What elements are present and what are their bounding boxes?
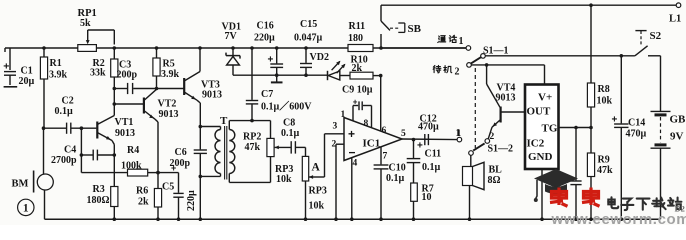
capacitor C15 (294, 19, 323, 77)
svg-text:5: 5 (401, 129, 406, 139)
svg-text:BL: BL (489, 165, 503, 176)
svg-text:470µ: 470µ (418, 122, 439, 133)
svg-text:TG: TG (542, 123, 558, 135)
label: IC1 pin numbers (332, 110, 407, 169)
svg-text:VT1: VT1 (115, 117, 134, 128)
svg-text:C14: C14 (628, 118, 645, 129)
wire: IC2 GND to rail (540, 169, 544, 221)
svg-text:200p: 200p (117, 70, 138, 81)
switch S1-2 (457, 129, 514, 155)
svg-text:C8: C8 (283, 118, 295, 129)
svg-text:V+: V+ (538, 92, 552, 104)
svg-text:C4: C4 (64, 145, 76, 156)
capacitor C1 (3, 48, 34, 87)
svg-text:3: 3 (333, 122, 338, 132)
node: C2/C4 branch (80, 126, 84, 172)
svg-text:R5: R5 (163, 59, 175, 70)
svg-text:220µ: 220µ (186, 190, 197, 211)
svg-text:C15: C15 (300, 19, 317, 30)
svg-text:RP3: RP3 (309, 186, 327, 197)
resistor R4 (81, 145, 159, 176)
svg-text:8: 8 (364, 119, 369, 129)
svg-text:R8: R8 (598, 84, 610, 95)
wire: L1 line rail (top) (381, 3, 676, 7)
svg-text:R11: R11 (349, 21, 366, 32)
wire: rail SB to S1-1 (381, 47, 466, 49)
svg-text:9V: 9V (670, 131, 684, 143)
svg-text:+: + (3, 61, 9, 73)
capacitor C9 feedback loop (342, 85, 373, 128)
svg-text:180Ω: 180Ω (87, 195, 110, 206)
svg-text:C10: C10 (389, 163, 406, 174)
resistor R5 (153, 46, 180, 90)
svg-text:GND: GND (528, 151, 553, 163)
svg-text:C9 10µ: C9 10µ (342, 85, 373, 96)
op-amp IC1 (344, 118, 402, 161)
svg-text:T: T (220, 115, 228, 127)
svg-text:1: 1 (457, 129, 462, 139)
capacitor C12 (417, 114, 439, 152)
svg-text:www.eeworm.com: www.eeworm.com (551, 211, 686, 225)
svg-text:R1: R1 (50, 58, 62, 69)
svg-text:C6: C6 (175, 147, 187, 158)
capacitor C13 (under watermark) (570, 126, 581, 221)
resistor R10 (350, 55, 383, 80)
svg-text:9013: 9013 (202, 90, 222, 101)
microphone BM (12, 126, 54, 219)
svg-text:3.9k: 3.9k (161, 69, 180, 80)
wire: left edge drop at rail start (4, 48, 6, 52)
potentiometer RP2 (229, 132, 290, 183)
label: node A (312, 162, 321, 174)
potentiometer RP1 (78, 8, 117, 51)
capacitor C5 (156, 163, 197, 221)
capacitor C7 (246, 46, 312, 122)
svg-text:0.047µ: 0.047µ (294, 33, 323, 44)
svg-text:5k: 5k (80, 18, 91, 29)
svg-text:+: + (268, 55, 274, 66)
svg-text:BM: BM (12, 179, 29, 190)
LED VD2 with R10 (310, 52, 351, 80)
wire: S1-1 pole B to S2 (485, 55, 635, 57)
svg-text:C5: C5 (162, 182, 174, 193)
svg-text:R4: R4 (127, 145, 139, 156)
ground tick (271, 73, 283, 82)
node: VT3 emitter / transformer junction (199, 125, 203, 129)
svg-text:OUT: OUT (527, 106, 552, 118)
pushbutton SB (379, 5, 421, 50)
battery GB (651, 56, 686, 219)
svg-text:0.1µ／600V: 0.1µ／600V (261, 100, 312, 113)
capacitor C6 (170, 127, 207, 222)
svg-text:C16: C16 (257, 21, 274, 32)
svg-text:470µ: 470µ (626, 129, 647, 140)
transistor VT3 (184, 46, 222, 126)
transistor VT1 (97, 116, 135, 187)
svg-text:10k: 10k (597, 96, 613, 107)
resistor R8 (587, 5, 612, 153)
svg-text:10: 10 (422, 192, 432, 203)
capacitor C16 (254, 21, 283, 76)
resistor R3 (87, 184, 118, 221)
svg-text:100k: 100k (121, 161, 142, 172)
resistor R2 (90, 48, 118, 116)
svg-text:R3: R3 (93, 184, 105, 195)
svg-text:S1—2: S1—2 (488, 144, 514, 155)
resistor R9 (587, 153, 613, 221)
wire: RP3 wiper to op-amp pin3 (325, 134, 345, 177)
svg-text:S2: S2 (650, 30, 662, 42)
label: standby position (433, 65, 459, 77)
transistor VT2 (114, 89, 178, 188)
terminal L1 (669, 3, 681, 25)
svg-text:IC2: IC2 (527, 138, 545, 150)
svg-text:1: 1 (459, 36, 464, 47)
svg-text:0.1µ: 0.1µ (386, 173, 405, 184)
svg-text:2k: 2k (352, 63, 363, 74)
svg-text:10k: 10k (276, 174, 292, 185)
svg-text:+: + (612, 115, 618, 126)
svg-text:9013: 9013 (115, 128, 135, 139)
node: VT1 collector junctions (113, 87, 117, 106)
zener diode VD1 (222, 22, 241, 76)
mech linkage S1 (dashed) (474, 68, 476, 148)
wire: op-amp pin2 to ground (334, 144, 344, 221)
svg-text:180: 180 (348, 33, 363, 44)
watermark: www.eeworm.com (551, 204, 686, 229)
svg-text:1: 1 (23, 203, 29, 215)
wire: standby row to IC2 V+ (471, 63, 544, 84)
svg-text:4: 4 (353, 159, 358, 169)
svg-text:VT2: VT2 (158, 99, 177, 110)
watermark: red chong-chong characters (550, 188, 600, 207)
svg-text:9013: 9013 (496, 93, 516, 104)
svg-text:−: − (349, 146, 356, 160)
svg-text:A: A (312, 162, 321, 174)
wire: zener/ground row y75 (233, 74, 327, 76)
watermark: graduation cap logo (534, 169, 578, 202)
wire: bottom ground rail (45, 218, 661, 220)
svg-text:6: 6 (382, 126, 387, 136)
svg-text:2k: 2k (138, 197, 149, 208)
svg-text:33k: 33k (90, 68, 106, 79)
svg-text:20µ: 20µ (19, 76, 35, 87)
switch S1-1 (466, 46, 485, 68)
capacitor C11 / resistor R7 to ground (407, 140, 441, 221)
capacitor C4 (51, 145, 116, 167)
svg-text:GB: GB (670, 114, 686, 126)
svg-text:3.9k: 3.9k (49, 70, 68, 81)
svg-text:0.1µ: 0.1µ (281, 128, 300, 139)
svg-text:10k: 10k (309, 201, 325, 212)
speaker BL (463, 155, 503, 221)
svg-text:7V: 7V (225, 31, 238, 42)
svg-text:S1—1: S1—1 (483, 46, 509, 57)
svg-text:R9: R9 (598, 155, 610, 166)
capacitor C2 (44, 96, 97, 134)
wire: pin4 to ground (350, 158, 354, 222)
resistor R1 (40, 46, 67, 128)
svg-text:IC1: IC1 (363, 138, 381, 150)
svg-text:D2: D2 (675, 204, 685, 214)
svg-text:+: + (417, 141, 423, 152)
svg-text:8Ω: 8Ω (488, 175, 501, 186)
svg-text:47k: 47k (245, 142, 261, 153)
svg-text:9013: 9013 (159, 109, 179, 120)
svg-text:2700p: 2700p (51, 155, 77, 166)
svg-text:+: + (348, 127, 355, 141)
svg-text:RP2: RP2 (243, 132, 261, 143)
resistor R11 (in rail) (348, 21, 373, 52)
capacitor C3 (114, 60, 156, 95)
svg-text:SB: SB (408, 23, 422, 35)
IC2 box (525, 85, 559, 170)
svg-text:2: 2 (490, 132, 495, 142)
svg-text:2: 2 (455, 67, 460, 78)
svg-text:2: 2 (332, 140, 337, 150)
terminal 1 (line out) (456, 129, 462, 142)
svg-text:C2: C2 (62, 96, 74, 107)
wire: main supply rail (top, y48) (5, 47, 466, 49)
capacitor C10 on pin7 (374, 147, 406, 222)
svg-text:VD2: VD2 (310, 52, 329, 63)
capacitor C8 (281, 118, 306, 157)
label: S1-1 (483, 46, 509, 57)
svg-text:L1: L1 (669, 14, 681, 25)
svg-text:200p: 200p (170, 158, 191, 169)
wire: VT3 base node row (157, 88, 184, 90)
svg-text:0.1µ: 0.1µ (55, 106, 74, 117)
transformer T (200, 115, 235, 182)
watermark: dianzi xiazaizhan characters (608, 197, 681, 210)
svg-text:C11: C11 (425, 149, 442, 160)
potentiometer RP3 (275, 156, 327, 221)
switch S2 (635, 30, 662, 56)
wire: IC1 output (402, 138, 457, 142)
wire: transformer secondary top row (229, 121, 270, 139)
svg-text:220µ: 220µ (254, 33, 275, 44)
svg-text:0.1µ: 0.1µ (422, 162, 441, 173)
svg-text:R6: R6 (136, 186, 148, 197)
capacitor C14 (612, 54, 647, 221)
wire: pin6 column from R10/SB node (380, 76, 382, 131)
svg-text:+: + (353, 98, 358, 107)
resistor R6 (136, 186, 162, 222)
label: circled 1 terminal (18, 199, 34, 215)
svg-text:1: 1 (341, 110, 346, 120)
svg-text:C7: C7 (261, 89, 273, 100)
svg-text:47k: 47k (597, 165, 613, 176)
svg-text:7: 7 (383, 152, 388, 162)
label: talk position (438, 35, 464, 47)
svg-text:C1: C1 (21, 66, 33, 77)
wire: TG row (559, 126, 593, 130)
transistor VT4 (487, 65, 525, 139)
